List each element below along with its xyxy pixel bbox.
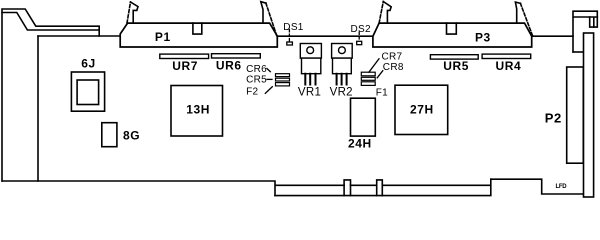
svg-text:VR2: VR2 — [330, 86, 353, 98]
LED DS2 leader — [358, 32, 360, 41]
diode CR7 body — [361, 72, 375, 76]
board top edge (right segment) — [532, 35, 573, 37]
svg-text:UR5: UR5 — [443, 59, 469, 73]
P1 left ejector lever — [127, 2, 138, 23]
connector P1 — [120, 23, 277, 47]
svg-text:P2: P2 — [545, 110, 562, 125]
svg-text:13H: 13H — [186, 102, 210, 116]
bottom edge plateau — [491, 179, 584, 194]
diode CR6 body — [276, 74, 290, 77]
svg-text:UR7: UR7 — [172, 59, 198, 73]
P1 key notch — [193, 23, 202, 34]
svg-text:CR5: CR5 — [246, 75, 267, 86]
regulator VR2 — [332, 44, 353, 85]
svg-text:8G: 8G — [123, 129, 140, 143]
svg-text:6J: 6J — [81, 57, 96, 71]
fuse F2 body — [276, 83, 290, 86]
svg-text:P1: P1 — [155, 30, 171, 44]
chip 13H — [171, 86, 223, 137]
svg-text:CR6: CR6 — [246, 64, 267, 75]
right mounting bracket — [573, 11, 597, 197]
LED DS1 body — [287, 42, 293, 45]
board left edge — [37, 36, 39, 181]
key slot tab 2 — [377, 180, 383, 196]
P3 key notch — [447, 23, 457, 34]
fuse F1 body — [361, 82, 375, 86]
connector P3 — [373, 23, 532, 47]
svg-text:LFD: LFD — [556, 184, 568, 190]
svg-text:CR7: CR7 — [382, 52, 403, 63]
P1 right ejector lever — [261, 2, 277, 36]
chip 24H — [351, 98, 376, 136]
svg-text:24H: 24H — [348, 137, 372, 151]
board top edge (middle segment between P1 and P3) — [277, 35, 373, 37]
board bottom edge — [2, 181, 275, 196]
svg-text:UR6: UR6 — [216, 59, 242, 73]
F2 leader slash — [265, 87, 272, 94]
LED DS1 leader — [288, 30, 290, 42]
svg-text:P3: P3 — [475, 30, 491, 44]
left mounting bracket — [2, 9, 99, 181]
CR8 leader line — [377, 71, 383, 78]
svg-text:UR4: UR4 — [496, 59, 522, 73]
card-edge contact bar — [275, 179, 491, 195]
CR6 leader tick — [267, 69, 270, 72]
svg-text:VR1: VR1 — [298, 86, 321, 98]
socket UR4 — [482, 54, 531, 58]
svg-text:CR8: CR8 — [383, 62, 404, 73]
LED DS2 body — [357, 41, 362, 44]
chip 27H — [395, 85, 448, 134]
svg-text:F1: F1 — [376, 88, 388, 99]
component 8G — [102, 123, 117, 147]
key slot tab 1 — [344, 180, 350, 196]
socket UR5 — [430, 55, 478, 59]
svg-text:DS2: DS2 — [351, 24, 371, 35]
CR7 leader line — [369, 59, 379, 72]
connector P2 — [567, 67, 584, 163]
regulator VR1 — [300, 44, 321, 85]
P3 left ejector lever — [379, 2, 391, 24]
diode CR5 body — [276, 78, 290, 81]
P3 right ejector lever — [515, 2, 532, 36]
diode CR8 body — [361, 77, 375, 80]
board top edge (left segment) — [38, 35, 120, 37]
svg-text:27H: 27H — [410, 102, 434, 116]
svg-text:DS1: DS1 — [283, 22, 303, 33]
svg-text:F2: F2 — [246, 86, 258, 97]
connector 6J — [71, 72, 104, 111]
socket UR6 — [212, 54, 261, 58]
socket UR7 — [160, 54, 209, 58]
CR5 leader dash — [267, 78, 272, 80]
